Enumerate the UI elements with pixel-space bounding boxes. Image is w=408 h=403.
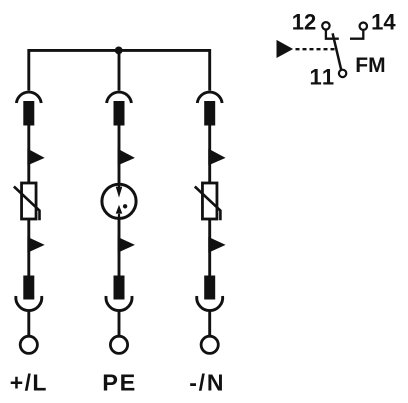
svg-text:12: 12 bbox=[292, 9, 316, 34]
svg-text:-/N: -/N bbox=[189, 370, 225, 396]
svg-text:14: 14 bbox=[371, 9, 396, 34]
svg-text:11: 11 bbox=[310, 65, 336, 90]
svg-text:FM: FM bbox=[355, 54, 385, 77]
svg-text:PE: PE bbox=[102, 370, 137, 396]
svg-text:+/L: +/L bbox=[10, 370, 48, 396]
